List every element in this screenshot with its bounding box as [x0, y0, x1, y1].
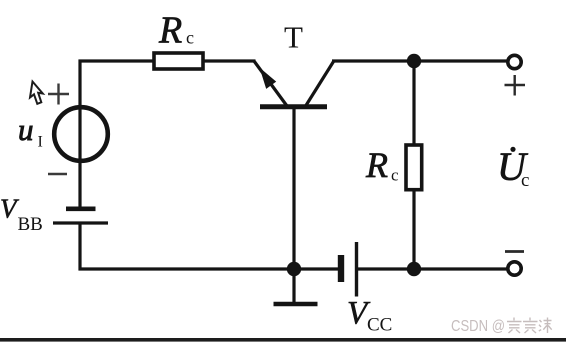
svg-text:I: I — [38, 134, 43, 151]
wire: collector to top-right output — [332, 59, 509, 62]
node: collector junction dot — [407, 54, 421, 68]
wire: left vertical through source — [78, 60, 81, 209]
svg-text:T: T — [284, 20, 303, 55]
label uI — [18, 112, 43, 151]
svg-text:c: c — [521, 170, 529, 191]
wire: VCC to right junction — [358, 267, 509, 270]
battery V_BB plate negative (short thick) — [66, 207, 96, 212]
transistor Q1 collector diagonal — [305, 62, 334, 108]
svg-text:BB: BB — [18, 214, 43, 235]
ground stem — [292, 269, 295, 302]
resistor R2 (Rc right, vertical box) — [406, 145, 422, 190]
label R1 value Rc — [158, 10, 194, 52]
node: bottom-right junction dot — [407, 262, 421, 276]
svg-text:u: u — [18, 112, 34, 147]
node: ground junction dot — [287, 262, 301, 276]
label + polarity of uI — [48, 84, 69, 105]
svg-text:c: c — [186, 28, 194, 48]
wire: Rc2 to bottom junction — [412, 189, 415, 269]
watermark CSDN — [451, 318, 552, 336]
battery V_BB plate positive (long thin) — [53, 221, 108, 224]
label U_c output voltage — [497, 144, 529, 191]
label - polarity at output — [505, 250, 524, 253]
battery V_CC plate negative (short thick) — [338, 255, 344, 282]
label V_CC — [347, 296, 392, 336]
label + polarity at output — [505, 75, 526, 96]
svg-text:CSDN @: CSDN @ — [451, 318, 505, 335]
label V_BB — [0, 194, 43, 236]
svg-text:c: c — [391, 166, 399, 185]
svg-text:R: R — [158, 10, 182, 52]
resistor R1 (Rc top, horizontal box) — [154, 53, 203, 69]
transistor Q1 (T) emitter diagonal — [254, 61, 287, 106]
svg-text:R: R — [365, 145, 388, 185]
wire: collector node down to Rc2 — [412, 61, 415, 145]
wire: bottom rail left segment — [79, 267, 339, 270]
svg-text:CC: CC — [367, 315, 392, 336]
wire: VBB to bottom rail — [78, 223, 81, 271]
wire: Rc to transistor emitter corner — [203, 59, 256, 62]
wire: top-left horizontal from input node to Rc — [79, 59, 155, 62]
wire: transistor base vertical down — [292, 108, 295, 269]
bottom separator bar — [0, 338, 566, 342]
transistor Q1 base bar — [260, 104, 327, 109]
label - polarity of uI — [48, 173, 67, 176]
battery V_CC plate positive (long thin) — [355, 242, 358, 297]
label R2 value Rc — [365, 145, 399, 185]
transistor Q1 emitter arrow — [260, 68, 277, 89]
ground bar — [274, 302, 318, 307]
terminal: output + (open circle top right) — [508, 55, 521, 68]
terminal: output - (open circle bottom right) — [508, 262, 521, 275]
cursor arrow icon — [30, 82, 43, 104]
source V1 (uI, circle) — [54, 107, 108, 161]
